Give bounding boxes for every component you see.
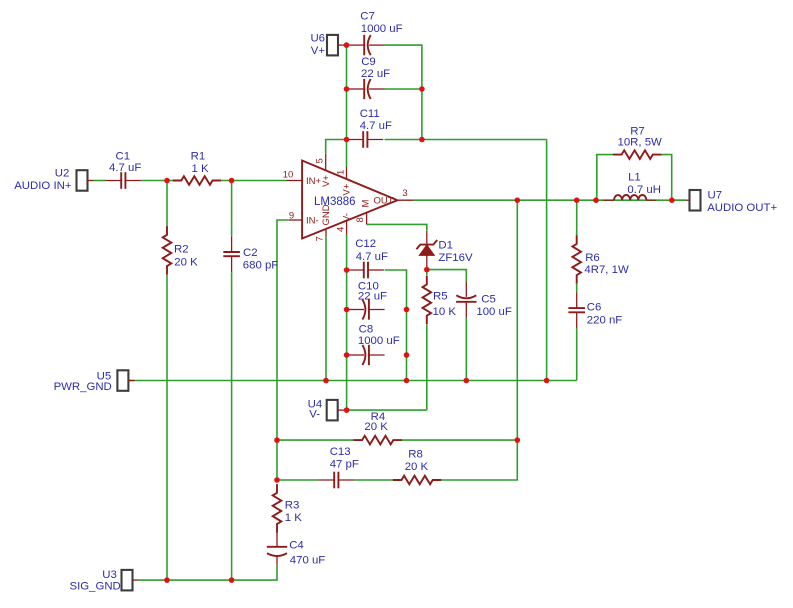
- svg-text:C2: C2: [243, 247, 258, 259]
- connector U6 reference label: [310, 33, 325, 45]
- junction at (346.6,270): [344, 267, 350, 273]
- connector U5 name label: [54, 381, 112, 393]
- svg-text:5: 5: [315, 158, 326, 163]
- svg-text:1 K: 1 K: [285, 512, 302, 524]
- svg-text:R3: R3: [285, 500, 300, 512]
- svg-text:C6: C6: [587, 301, 602, 313]
- pin V+ name (pin1): [342, 183, 353, 195]
- junction at (466.3,380.5): [464, 378, 470, 384]
- wire U7 stub: [672, 199, 686, 201]
- resistor R1: [173, 176, 222, 185]
- R1 value label: [192, 163, 209, 175]
- C12 reference label: [355, 238, 376, 250]
- svg-text:C8: C8: [359, 324, 374, 336]
- svg-text:1000 uF: 1000 uF: [358, 335, 400, 347]
- svg-text:10: 10: [283, 170, 294, 181]
- svg-text:V+: V+: [311, 45, 326, 57]
- junction at (596,200.2): [593, 197, 599, 203]
- wire C9 right to column: [385, 88, 422, 90]
- connector U3 name label: [70, 580, 121, 592]
- op-amp U1 LM3886 body: [302, 161, 397, 239]
- svg-text:V-: V-: [309, 409, 320, 421]
- resistor R5: [423, 276, 432, 325]
- svg-text:4.7 uF: 4.7 uF: [356, 251, 388, 263]
- svg-text:C5: C5: [481, 293, 496, 305]
- wire OUT from pin 3 to U7: [414, 199, 686, 201]
- connector U7 name label: [707, 202, 777, 214]
- wire R6 top: [576, 200, 578, 235]
- C8 reference label: [359, 324, 374, 336]
- resistor R3: [273, 484, 282, 533]
- wire R5 bottom to V- row: [426, 325, 428, 410]
- wire pin 7 to PWR_GND row: [325, 236, 327, 380]
- resistor R7: [613, 150, 662, 159]
- svg-text:AUDIO OUT+: AUDIO OUT+: [707, 202, 777, 214]
- svg-text:U6: U6: [310, 33, 325, 45]
- pin GND name: [321, 204, 332, 225]
- R4 reference label: [371, 411, 386, 423]
- connector U4 name label: [309, 409, 320, 421]
- capacitor C10: [349, 299, 385, 319]
- junction at (406.5,355): [404, 352, 410, 358]
- R7 reference label: [630, 126, 645, 138]
- capacitor C6: [568, 292, 585, 328]
- svg-text:47 pF: 47 pF: [330, 459, 359, 471]
- C10 value label: [358, 291, 387, 303]
- svg-text:0.7 uH: 0.7 uH: [627, 184, 661, 196]
- wire R6 to C6: [576, 284, 578, 292]
- resistor R6: [572, 235, 581, 284]
- capacitor C12: [348, 262, 384, 279]
- connector U4 V-: [327, 400, 343, 421]
- C11 value label: [360, 120, 392, 132]
- svg-text:OUT: OUT: [373, 196, 393, 207]
- C1 value label: [109, 162, 141, 174]
- svg-text:4R7, 1W: 4R7, 1W: [584, 264, 629, 276]
- diode D1 zener: [416, 231, 437, 270]
- capacitor C1: [105, 172, 141, 189]
- C4 reference label: [289, 540, 304, 552]
- wire V+ column C9 to C11: [346, 89, 348, 140]
- pin 1 number: [336, 170, 347, 175]
- wire R2 bottom to SIG_GND row: [166, 275, 168, 580]
- junction at (406.5,380.5): [404, 378, 410, 384]
- connector U2 reference label: [55, 168, 70, 180]
- C2 reference label: [243, 247, 258, 259]
- capacitor C9: [349, 79, 385, 99]
- svg-text:C4: C4: [289, 540, 304, 552]
- svg-text:R8: R8: [408, 448, 423, 460]
- svg-text:220 nF: 220 nF: [587, 315, 623, 327]
- wire R7 right to OUT: [661, 155, 671, 201]
- R4 value label: [364, 421, 388, 433]
- wire C12 right to column: [385, 270, 407, 310]
- D1 value label: [438, 252, 473, 264]
- junction at (326,380.5): [323, 378, 329, 384]
- wire SIG_GND row: [138, 565, 277, 580]
- connector U7 reference label: [708, 189, 723, 201]
- junction at (346.5,139.5): [344, 137, 350, 143]
- pin V+ name (pin5): [321, 175, 332, 187]
- C6 reference label: [587, 301, 602, 313]
- junction at (517.3,440.1): [515, 437, 521, 443]
- wire C11 row to pin 5: [326, 140, 347, 154]
- svg-text:R1: R1: [191, 151, 206, 163]
- connector U3 SIG_GND: [122, 570, 139, 591]
- junction at (546.6,380.5): [544, 378, 550, 384]
- wire R8 row left: [277, 479, 318, 481]
- junction at (277,480): [274, 477, 280, 483]
- svg-text:7: 7: [315, 236, 326, 241]
- wire pin 8 to D1 top: [367, 224, 427, 230]
- svg-text:8: 8: [355, 217, 366, 222]
- pin M name: [361, 200, 372, 208]
- svg-text:V+: V+: [342, 183, 353, 195]
- C12 value label: [356, 251, 388, 263]
- C8 value label: [358, 335, 400, 347]
- svg-text:V+: V+: [321, 175, 332, 187]
- junction at (167,180.5): [164, 178, 170, 184]
- svg-text:1000 uF: 1000 uF: [361, 23, 403, 35]
- svg-text:PWR_GND: PWR_GND: [54, 381, 112, 393]
- R2 value label: [174, 256, 198, 268]
- svg-text:C13: C13: [330, 446, 351, 458]
- R7 value label: [618, 137, 663, 149]
- connector U5 PWR_GND: [117, 370, 134, 391]
- L1 reference label: [628, 171, 641, 183]
- wire IN- from pin 9 to feedback column: [277, 220, 289, 480]
- wire C13 to R8: [354, 479, 393, 481]
- wire C5 bottom to PWR_GND row: [465, 318, 467, 381]
- capacitor C11: [347, 131, 383, 148]
- C5 value label: [476, 306, 512, 318]
- wire V+ column C7 to C9: [346, 45, 348, 89]
- R5 reference label: [433, 291, 448, 303]
- C10 reference label: [358, 281, 379, 293]
- C13 value label: [330, 459, 359, 471]
- svg-text:20 K: 20 K: [174, 256, 198, 268]
- junction at (231.6,580.1): [229, 577, 235, 583]
- C9 reference label: [361, 56, 376, 68]
- R6 value label: [584, 264, 629, 276]
- svg-text:R2: R2: [174, 244, 189, 256]
- op-amp U1 value label: [314, 196, 356, 208]
- svg-text:L1: L1: [628, 171, 641, 183]
- wire PWR_GND row: [135, 380, 577, 382]
- svg-text:3: 3: [402, 188, 407, 199]
- connector U7 AUDIO OUT+: [686, 190, 701, 211]
- R1 reference label: [191, 151, 206, 163]
- junction at (346.5,89): [344, 86, 350, 92]
- pin 10 number: [283, 170, 294, 181]
- wire R8 right up to R4 row: [441, 440, 517, 480]
- wire R5 top to D1: [426, 270, 428, 276]
- wire R4 row right: [402, 439, 517, 441]
- connector U6 name label: [311, 45, 326, 57]
- wire feedback column from R4 row up to OUT: [516, 200, 518, 440]
- wire right column C9 row to C11 row: [421, 89, 423, 140]
- C2 value label: [243, 260, 279, 272]
- svg-text:R5: R5: [433, 291, 448, 303]
- svg-text:C12: C12: [355, 238, 376, 250]
- junction at (671.9,200.2): [669, 197, 675, 203]
- svg-text:9: 9: [289, 210, 294, 221]
- junction at (346.5,45.1): [344, 42, 350, 48]
- R3 reference label: [285, 500, 300, 512]
- pin 9 number: [289, 210, 294, 221]
- capacitor C8: [349, 345, 385, 365]
- C5 reference label: [481, 293, 496, 305]
- R5 value label: [433, 306, 457, 318]
- svg-text:U2: U2: [55, 168, 70, 180]
- C6 value label: [587, 315, 623, 327]
- capacitor C13: [318, 472, 354, 489]
- wire D1 node to C5 top: [427, 270, 467, 282]
- svg-text:GND: GND: [321, 204, 332, 225]
- junction at (421.9,139.5): [419, 137, 425, 143]
- C9 value label: [361, 68, 390, 80]
- resistor R2: [163, 226, 172, 275]
- svg-text:SIG_GND: SIG_GND: [70, 580, 121, 592]
- svg-text:22 uF: 22 uF: [358, 291, 387, 303]
- connector U2 name label: [14, 180, 72, 192]
- wire pin 4 down through cap column to V-: [346, 234, 348, 410]
- R6 reference label: [585, 252, 600, 264]
- wire C6 bottom to PWR_GND row: [576, 328, 578, 380]
- resistor R8: [393, 476, 442, 485]
- junction at (426.8,269.6): [424, 267, 430, 273]
- svg-text:D1: D1: [438, 240, 453, 252]
- R8 value label: [405, 461, 429, 473]
- svg-text:R6: R6: [585, 252, 600, 264]
- inductor L1: [603, 195, 656, 200]
- wire C2 bottom to SIG_GND row: [231, 272, 233, 580]
- resistor R4: [353, 436, 402, 445]
- wire cap column C8 to PWR_GND: [406, 355, 408, 381]
- pin IN+ name: [306, 176, 322, 187]
- wire AUDIO_IN+ from U2 to C1: [94, 180, 106, 182]
- C7 value label: [361, 23, 403, 35]
- svg-text:470 uF: 470 uF: [290, 554, 326, 566]
- junction at (277,440.1): [274, 437, 280, 443]
- connector U5 reference label: [97, 371, 112, 383]
- svg-text:4.7 uF: 4.7 uF: [109, 162, 141, 174]
- svg-text:AUDIO IN+: AUDIO IN+: [14, 180, 72, 192]
- wire x547 column down to PWR_GND row: [546, 140, 548, 381]
- svg-text:10 K: 10 K: [433, 306, 457, 318]
- pin 8 number: [355, 217, 366, 222]
- junction at (406.5,309.5): [404, 307, 410, 313]
- C13 reference label: [330, 446, 351, 458]
- wire node to R2 top: [166, 181, 168, 227]
- capacitor C7: [349, 35, 385, 55]
- capacitor C4: [267, 530, 287, 565]
- junction at (421.9,89): [419, 86, 425, 92]
- C1 reference label: [116, 151, 131, 163]
- wire R7 branch: [597, 155, 613, 201]
- svg-text:IN-: IN-: [306, 216, 319, 227]
- wire V- row from U4: [343, 409, 427, 411]
- junction at (576.7,200.2): [574, 197, 580, 203]
- svg-text:4.7 uF: 4.7 uF: [360, 120, 392, 132]
- D1 reference label: [438, 240, 453, 252]
- junction at (346.6,309.5): [344, 307, 350, 313]
- svg-text:U7: U7: [708, 189, 723, 201]
- svg-text:C9: C9: [361, 56, 376, 68]
- C7 reference label: [360, 10, 375, 22]
- wire U5 stub to PWR row: [129, 380, 135, 382]
- junction at (346.6,410.1): [344, 407, 350, 413]
- junction at (231.6,180.5): [229, 178, 235, 184]
- connector U2 AUDIO IN+: [77, 170, 94, 191]
- wire node to C2 top: [231, 181, 233, 236]
- pin V- name: [342, 213, 353, 222]
- junction at (167,580.1): [164, 577, 170, 583]
- wire U6 to C7: [344, 44, 347, 46]
- wire R1 to op-amp IN+ pin: [221, 180, 286, 182]
- C4 value label: [290, 554, 326, 566]
- svg-text:22 uF: 22 uF: [361, 68, 390, 80]
- wire R4 row left: [277, 439, 354, 441]
- svg-text:M: M: [361, 200, 372, 208]
- svg-text:20 K: 20 K: [405, 461, 429, 473]
- wire cap column C10 to C8: [406, 310, 408, 356]
- wire C11 right to x547 column: [385, 139, 547, 141]
- wire C1 to R1 through node: [141, 180, 172, 182]
- svg-text:100 uF: 100 uF: [476, 306, 512, 318]
- capacitor C5: [456, 282, 476, 318]
- svg-text:680 pF: 680 pF: [243, 260, 279, 272]
- svg-text:C11: C11: [360, 108, 380, 120]
- svg-text:20 K: 20 K: [364, 421, 388, 433]
- capacitor C2: [223, 236, 240, 272]
- pin 3 number: [402, 188, 407, 199]
- pin IN- name: [306, 216, 319, 227]
- svg-text:4: 4: [336, 227, 347, 232]
- svg-text:C7: C7: [360, 10, 375, 22]
- connector U3 reference label: [102, 569, 117, 581]
- svg-text:IN+: IN+: [306, 176, 322, 187]
- svg-text:ZF16V: ZF16V: [438, 252, 473, 264]
- wire C11 row to pin 1: [346, 140, 348, 168]
- connector U4 reference label: [308, 399, 323, 411]
- connector U6 V+: [327, 35, 344, 56]
- svg-text:C1: C1: [116, 151, 131, 163]
- pin 5 number: [315, 158, 326, 163]
- R3 value label: [285, 512, 302, 524]
- C11 reference label: [360, 108, 380, 120]
- svg-text:V-: V-: [342, 213, 353, 222]
- wire C7 right down to C9 row: [385, 45, 422, 89]
- pin 4 number: [336, 227, 347, 232]
- junction at (346.6,355): [344, 352, 350, 358]
- pin 7 number: [315, 236, 326, 241]
- pin OUT name: [373, 196, 393, 207]
- L1 value label: [627, 184, 661, 196]
- R8 reference label: [408, 448, 423, 460]
- svg-text:1 K: 1 K: [192, 163, 209, 175]
- R2 reference label: [174, 244, 189, 256]
- junction at (517.3,200.2): [515, 197, 521, 203]
- svg-text:1: 1: [336, 170, 347, 175]
- svg-text:10R, 5W: 10R, 5W: [618, 137, 663, 149]
- op-amp U1 pins: [287, 154, 414, 237]
